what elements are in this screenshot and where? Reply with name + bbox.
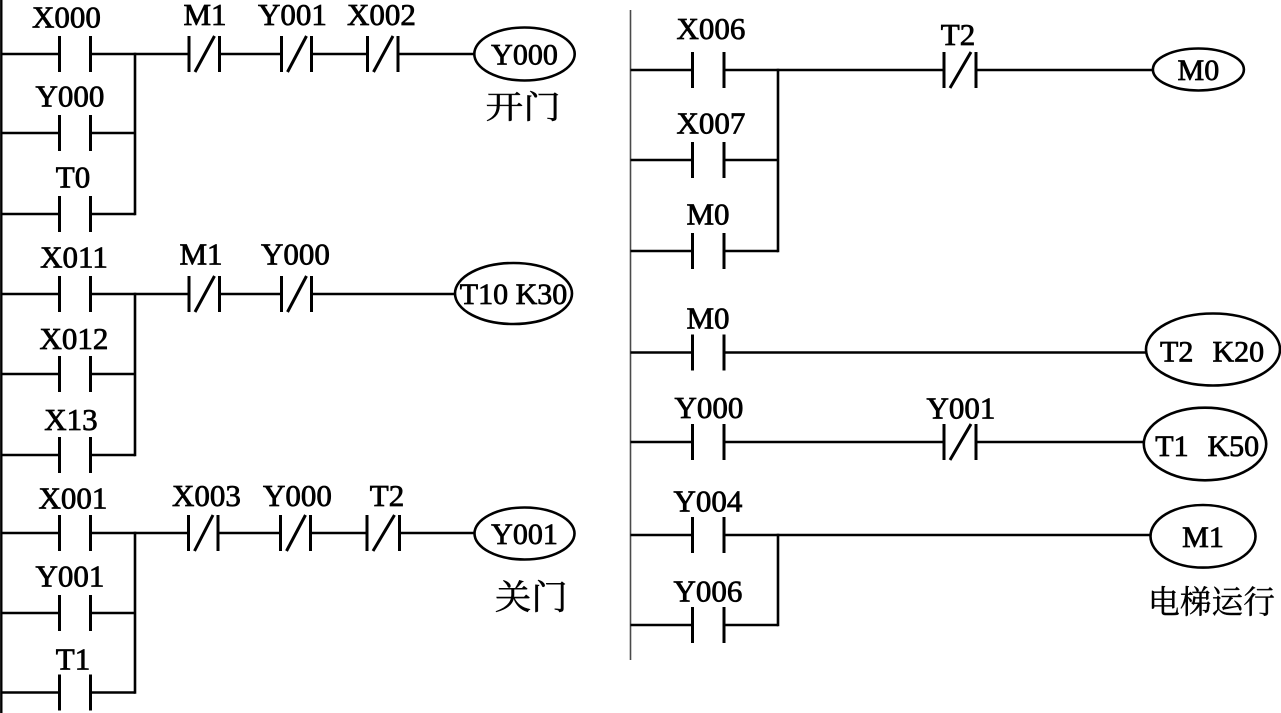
wire branch Y006 rail to contact: [631, 624, 693, 627]
coil T10 K30 (timer): [455, 263, 572, 324]
coil T2 K20 (timer): [1146, 314, 1280, 386]
svg-text:X007: X007: [677, 106, 746, 141]
wire branch Y001 rail to contact: [1, 612, 59, 615]
contact X13 (NO, parallel branch): [44, 402, 97, 473]
contact T2 (NC, rung3): [367, 478, 404, 551]
svg-text:Y001: Y001: [927, 391, 996, 426]
wire rung5 rail to M0: [631, 351, 693, 354]
wire branch M0 rail to contact: [631, 250, 693, 253]
contact X002 (NC): [347, 0, 416, 72]
label 电梯运行 (elevator running): [1152, 586, 1274, 616]
wire rung2 rail to X011: [1, 293, 59, 296]
contact Y000 (NO, rung6): [675, 390, 744, 460]
contact X001 (NO): [39, 481, 108, 552]
wire rung4 T2 to coil M0: [976, 69, 1153, 72]
wire branch Y001 contact to junction: [91, 612, 136, 615]
wire rung2 Y000 to coil: [312, 293, 456, 296]
svg-text:M1: M1: [1182, 521, 1224, 554]
wire rung3 X003 to Y000: [218, 532, 281, 535]
contact X000 (NO): [32, 0, 101, 72]
wire branch T0 contact to junction: [91, 213, 136, 216]
svg-text:M0: M0: [686, 301, 729, 336]
svg-text:T1: T1: [56, 642, 90, 677]
wire branch X007 rail to contact: [631, 159, 693, 162]
coil M1: [1151, 505, 1256, 568]
svg-text:X006: X006: [677, 11, 746, 46]
wire rung4 X006 to T2 (through junction): [724, 69, 944, 72]
wire branch M0 contact to junction: [724, 250, 778, 253]
junction vertical rung7: [777, 534, 780, 627]
contact X006 (NO): [677, 11, 746, 88]
junction vertical rung3: [134, 532, 137, 694]
wire branch Y000 rail to contact: [1, 132, 59, 135]
contact Y004 (NO): [674, 484, 743, 554]
contact Y000 (NO, parallel branch): [36, 79, 105, 152]
left power rail: [0, 0, 2, 713]
svg-text:X011: X011: [40, 240, 108, 275]
wire branch T1 rail to contact: [1, 691, 59, 694]
label 开门 (open door): [487, 91, 558, 121]
wire rung2 M1 to Y000: [220, 293, 282, 296]
contact Y001 (NC, rung6): [927, 391, 996, 461]
contact X012 (NO, parallel branch): [40, 321, 109, 392]
coil T1 K50 (timer): [1144, 408, 1266, 481]
contact Y000 (NC, rung3): [263, 478, 332, 551]
svg-text:Y000: Y000: [263, 478, 332, 513]
wire branch X007 contact to junction: [724, 159, 778, 162]
contact X007 (NO, parallel branch): [677, 106, 746, 179]
coil Y001: [475, 508, 575, 560]
svg-text:T10 K30: T10 K30: [460, 278, 568, 311]
wire branch X012 rail to contact: [1, 373, 59, 376]
wire rung5 M0 to coil T2 K20: [724, 351, 1147, 354]
wire rung6 rail to Y000: [631, 441, 693, 444]
contact M1 (NC): [183, 0, 226, 72]
svg-text:Y006: Y006: [674, 574, 743, 609]
wire branch X13 rail to contact: [1, 454, 59, 457]
svg-text:M0: M0: [686, 197, 729, 232]
svg-text:Y001: Y001: [36, 559, 105, 594]
svg-text:Y000: Y000: [675, 390, 744, 425]
svg-text:X000: X000: [32, 0, 101, 35]
svg-text:Y000: Y000: [261, 237, 330, 272]
wire rung4 rail to X006: [631, 69, 693, 72]
wire rung7 rail to Y004: [631, 534, 693, 537]
junction vertical rung4: [777, 69, 780, 253]
svg-text:X002: X002: [347, 0, 416, 32]
junction vertical rung1: [134, 53, 137, 216]
label 关门 (close door): [496, 580, 565, 612]
contact Y001 (NO, parallel branch): [36, 559, 105, 632]
wire rung1 rail to X000: [1, 53, 59, 56]
contact T1 (NO, parallel branch): [56, 642, 91, 711]
wire rung3 rail to X001: [1, 532, 59, 535]
contact X011 (NO): [40, 240, 108, 313]
wire rung1 X002 to coil Y000: [398, 53, 475, 56]
svg-text:T2: T2: [370, 478, 404, 513]
svg-text:M1: M1: [183, 0, 226, 32]
wire branch X13 contact to junction: [91, 454, 136, 457]
svg-text:Y001: Y001: [491, 518, 558, 551]
contact T2 (NC, rung4): [941, 17, 976, 88]
contact M0 (NO, parallel branch): [686, 197, 729, 270]
svg-text:Y004: Y004: [674, 484, 743, 519]
contact Y006 (NO, parallel branch): [674, 574, 743, 644]
svg-text:Y000: Y000: [36, 79, 105, 114]
svg-text:X012: X012: [40, 321, 109, 356]
svg-text:T0: T0: [56, 160, 90, 195]
wire rung3 X001 to X003: [91, 532, 189, 535]
junction vertical rung2: [134, 293, 137, 457]
coil Y000: [474, 28, 574, 81]
wire rung6 Y000 to Y001: [724, 441, 944, 444]
svg-text:M0: M0: [1178, 54, 1220, 87]
contact X003 (NC): [172, 478, 241, 551]
wire rung6 Y001 to coil T1 K50: [976, 441, 1144, 444]
contact Y000 (NC, rung2): [261, 237, 330, 313]
wire rung7 Y004 to coil M1 (through junction): [724, 534, 1151, 537]
wire branch Y000 contact to junction: [91, 132, 136, 135]
svg-text:T1: T1: [1155, 430, 1188, 463]
svg-text:T2: T2: [1160, 336, 1193, 369]
coil M0: [1153, 49, 1244, 91]
wire rung3 Y000 to T2: [311, 532, 368, 535]
contact T0 (NO, parallel branch): [56, 160, 91, 233]
wire rung3 T2 to coil Y001: [400, 532, 475, 535]
wire branch X012 contact to junction: [91, 373, 136, 376]
svg-text:Y000: Y000: [491, 39, 558, 72]
wire branch T0 rail to contact: [1, 213, 59, 216]
wire branch Y006 contact to junction: [724, 624, 778, 627]
wire rung1 X000 to M1 (through junction node): [91, 53, 190, 56]
wire rung1 M1 to Y001: [220, 53, 282, 56]
wire rung1 Y001 to X002: [312, 53, 368, 56]
svg-text:X001: X001: [39, 481, 108, 516]
contact M1 (NC, rung2): [179, 237, 222, 313]
svg-text:K50: K50: [1208, 430, 1260, 463]
svg-text:T2: T2: [941, 17, 975, 52]
svg-text:X003: X003: [172, 478, 241, 513]
wire rung2 X011 to M1: [91, 293, 190, 296]
svg-text:X13: X13: [44, 402, 97, 437]
svg-text:M1: M1: [179, 237, 222, 272]
wire branch T1 contact to junction: [91, 691, 136, 694]
svg-text:Y001: Y001: [258, 0, 327, 32]
contact M0 (NO, rung5): [686, 301, 729, 371]
svg-text:K20: K20: [1213, 336, 1265, 369]
right power rail: [630, 10, 632, 660]
contact Y001 (NC): [258, 0, 327, 72]
